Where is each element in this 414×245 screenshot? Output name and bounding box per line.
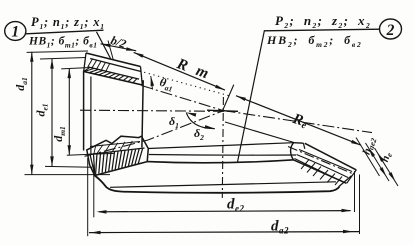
pos. 1 balloon circle: [5, 22, 26, 41]
pos. 2 balloon circle: [380, 19, 402, 39]
gear 2 label fraction bar: [264, 29, 380, 31]
pitch generator apex to right: [224, 111, 373, 133]
pitch generator apex to mesh (delta line): [85, 111, 224, 157]
label R_e: [290, 111, 310, 132]
gear 2 bottom face: [95, 176, 340, 193]
gear 2 right tooth tip corner: [303, 143, 304, 149]
gear 2 right tooth tip flat: [294, 142, 304, 145]
gear 1 parameter label top row: [31, 15, 105, 31]
gear 2 right tooth flank line a: [299, 150, 352, 172]
extension line for d_a1 bottom: [25, 174, 111, 176]
extension line for b/2: [108, 41, 113, 60]
dimension line d_a1: [30, 52, 33, 175]
extension line for d_m1 top: [61, 67, 93, 69]
gear 2 right tooth bottom line: [294, 160, 347, 183]
gear 2 right tooth pitch centerline: [288, 147, 354, 175]
dimension line R_m: [134, 52, 225, 90]
gear 2 right tooth shading strokes: [301, 160, 342, 186]
pinion top tooth root line: [84, 72, 143, 86]
extension line through R_e arrow tip: [356, 138, 380, 177]
pinion body left edge: [83, 71, 85, 151]
dimension line d_a2: [89, 230, 359, 235]
mesh zone upper tooth line: [90, 142, 140, 147]
dimension line d_e1: [50, 59, 54, 167]
apex extension line: [223, 85, 234, 111]
gear 1 label fraction bar: [26, 30, 104, 34]
dimension line d_e2: [97, 209, 352, 214]
gear 2 axis centerline: [222, 97, 223, 198]
extension line gear2 pitch surface: [366, 143, 390, 181]
theta_a1 arrow: [151, 76, 155, 90]
gear 2 rim top edge: [147, 160, 294, 163]
svg-text:2: 2: [386, 22, 395, 39]
label R_m: [174, 55, 214, 83]
label d_a1: [13, 77, 29, 91]
gear 2 right tooth flank line c: [295, 159, 343, 182]
pinion top tooth tip line: [86, 53, 141, 67]
pitch generator pinion top tooth to apex: [142, 86, 224, 111]
pinion body right edge: [142, 80, 143, 147]
svg-text:HB1; бт1; бв1: HB1; бт1; бв1: [28, 36, 97, 50]
dimension line b/2: [101, 44, 137, 51]
pinion top tooth right edge: [141, 67, 143, 86]
gear 2 rim inner edge: [110, 182, 336, 188]
dimension line d_m1: [68, 68, 72, 155]
pinion body inner left edge: [90, 77, 92, 156]
mesh zone sparse hatching: [94, 141, 132, 154]
pinion top tooth hatching: [84, 59, 137, 83]
mesh zone dense hatching: [90, 148, 143, 174]
extension line d_e2 left: [93, 164, 95, 217]
gear 2 right tooth top line: [305, 143, 357, 170]
label d_e2: [227, 197, 245, 214]
label b/2: [109, 33, 128, 51]
pinion top tooth left edge: [84, 53, 86, 72]
gear 2 right tooth flank line b: [297, 155, 349, 178]
svg-text:P2; n2; z2; x2: P2; n2; z2; x2: [275, 13, 371, 30]
label theta_a1: [158, 75, 175, 93]
extension line for d_e1 bottom: [45, 165, 92, 168]
tip cone dotted line (theta_a1): [140, 71, 231, 96]
pinion top tooth outer line: [90, 59, 141, 72]
mesh zone tooth outline: [87, 136, 149, 175]
extension line for d_m1 bottom: [67, 153, 114, 155]
gear 2 top face edge: [148, 143, 293, 149]
extension line for d_a1 top: [27, 51, 88, 52]
extension line d_a2 right: [359, 175, 361, 235]
extension line for d_e1 top: [40, 58, 86, 60]
label d_m1: [51, 126, 67, 142]
label h_e: [379, 150, 394, 164]
label delta_1: [169, 114, 179, 130]
svg-text:1: 1: [11, 24, 19, 41]
gear 2 tip edge diagonal: [225, 122, 294, 143]
gear 2 rim front edge: [149, 154, 296, 157]
gear 2 right tooth profile hook: [291, 143, 294, 160]
extension line d_e2 right: [354, 171, 356, 212]
label d_a2: [271, 219, 289, 236]
mesh zone inner tooth line: [88, 148, 144, 155]
gear 2 parameter label bottom row: [266, 33, 363, 49]
gear 2 parameter label top row: [275, 13, 371, 30]
leader line from label 1 to pinion: [97, 32, 111, 59]
label d_e1: [34, 103, 50, 116]
label h_ae2: [361, 136, 379, 157]
angle arc delta1-delta2: [186, 113, 215, 129]
pinion axis centerline: [80, 110, 238, 111]
pinion top tooth pitch-face line: [88, 67, 139, 79]
gear 2 right side edge: [339, 176, 352, 187]
svg-text:HB2; бт2; бв2: HB2; бт2; бв2: [266, 33, 363, 49]
dimension line R_e: [236, 96, 361, 146]
label delta_2: [194, 126, 204, 142]
gear 1 parameter label bottom row: [28, 36, 97, 50]
extension line gear2 root surface: [375, 148, 399, 186]
gear 2 right tooth outer end edge: [347, 170, 357, 183]
apex crossing solid line: [207, 110, 238, 111]
leader line from label 2 to gear 2: [238, 31, 265, 162]
extension line d_a2 left: [87, 158, 89, 236]
